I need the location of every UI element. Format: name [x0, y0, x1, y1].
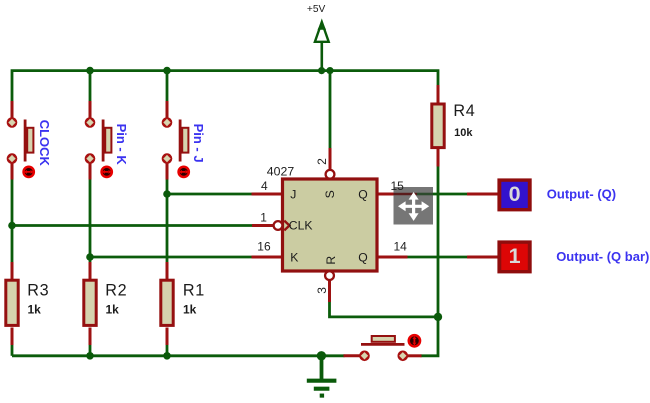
- svg-text:J: J: [290, 188, 296, 202]
- svg-text:S: S: [323, 190, 337, 198]
- svg-text:R4: R4: [453, 102, 475, 120]
- svg-text:2: 2: [315, 158, 329, 165]
- svg-text:1: 1: [509, 244, 521, 268]
- svg-text:CLOCK: CLOCK: [37, 120, 52, 167]
- svg-text:4027: 4027: [267, 165, 295, 179]
- svg-text:1k: 1k: [106, 302, 120, 316]
- svg-text:0: 0: [509, 182, 521, 206]
- svg-text:K: K: [290, 251, 298, 265]
- svg-text:3: 3: [315, 287, 329, 294]
- svg-text:4: 4: [261, 179, 268, 193]
- svg-text:Pin - K: Pin - K: [114, 124, 129, 166]
- svg-text:10k: 10k: [454, 127, 473, 139]
- svg-text:1k: 1k: [28, 302, 42, 316]
- svg-text:Q: Q: [358, 251, 367, 265]
- svg-text:CLK: CLK: [289, 218, 313, 232]
- svg-text:R3: R3: [27, 281, 49, 299]
- svg-text:Q: Q: [358, 188, 367, 202]
- svg-text:R: R: [324, 256, 338, 265]
- svg-text:R2: R2: [105, 281, 127, 299]
- svg-text:1: 1: [260, 210, 267, 224]
- svg-text:1k: 1k: [183, 302, 197, 316]
- svg-text:+5V: +5V: [307, 4, 326, 15]
- svg-text:Pin - J: Pin - J: [191, 124, 206, 163]
- svg-text:Output- (Q): Output- (Q): [547, 186, 616, 201]
- svg-text:15: 15: [391, 179, 405, 193]
- svg-text:R1: R1: [183, 281, 205, 299]
- svg-text:14: 14: [394, 240, 408, 254]
- svg-text:16: 16: [257, 239, 271, 253]
- svg-text:Output- (Q bar): Output- (Q bar): [556, 249, 649, 264]
